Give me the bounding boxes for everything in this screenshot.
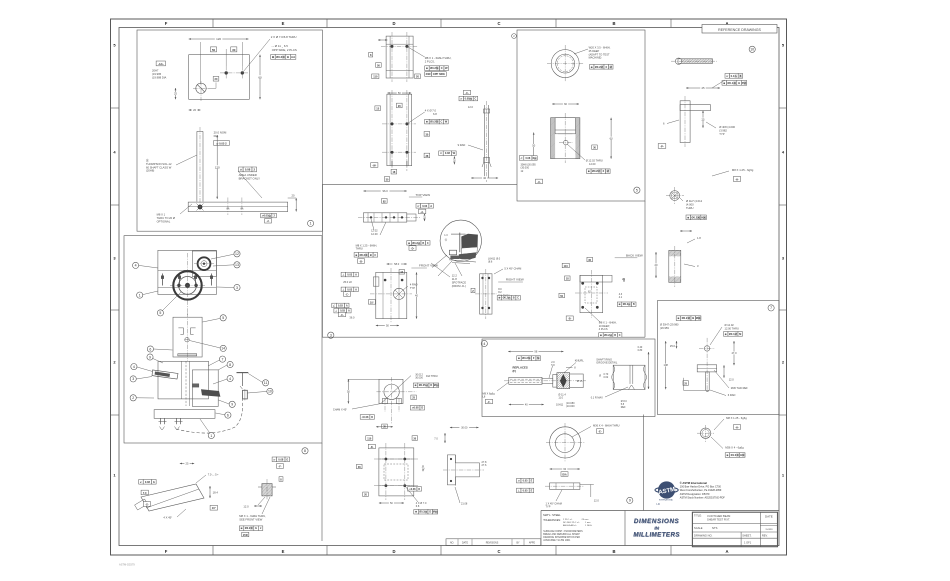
balloon 4b [131, 364, 153, 372]
svg-text:47.0: 47.0 [731, 351, 737, 355]
svg-text:25: 25 [702, 117, 705, 121]
washer cham [546, 490, 563, 509]
svg-text:0.03: 0.03 [338, 304, 343, 307]
svg-text:Ø 15: Ø 15 [577, 380, 583, 383]
svg-text:DIA: DIA [214, 134, 219, 138]
p3 front fcf col [332, 272, 376, 319]
svg-text:0.08Ⓜ: 0.08Ⓜ [465, 97, 473, 101]
svg-text:4: 4 [229, 377, 231, 381]
m36 nut note [711, 437, 744, 450]
svg-text:C: C [619, 334, 621, 337]
svg-text:DRAWING NO.: DRAWING NO. [694, 533, 713, 537]
svg-text:-X-: -X- [537, 181, 541, 184]
shaft groove detail label [596, 357, 618, 364]
notes box border [624, 511, 626, 546]
p3 top view body [358, 213, 421, 222]
wedge fcf3 [239, 526, 262, 537]
svg-text:1: 1 [210, 434, 212, 438]
svg-text:DIA: DIA [562, 473, 567, 476]
d-col rod notes [439, 143, 498, 180]
svg-text:-D-: -D- [370, 446, 374, 449]
svg-text:(10.000: (10.000 [566, 405, 575, 408]
svg-text:110: 110 [564, 265, 569, 268]
svg-text:Ø0.2Ⓜ: Ø0.2Ⓜ [592, 169, 601, 173]
flange cham [333, 379, 381, 411]
d-col rod [482, 101, 491, 182]
a-top pin [671, 58, 720, 64]
svg-text:58.0: 58.0 [394, 262, 400, 266]
svg-text:-B-: -B- [568, 318, 572, 321]
svg-text:V-NOTCHED BEAM: V-NOTCHED BEAM [707, 514, 730, 518]
footer microtext [119, 563, 135, 567]
svg-text:9 RAD: 9 RAD [458, 143, 466, 147]
fcf area under [238, 167, 262, 198]
d-col small bracket leader [407, 46, 452, 63]
balloon 11a [248, 374, 268, 386]
svg-text:B: B [422, 242, 424, 245]
svg-text:H: H [738, 81, 740, 85]
title block text [694, 514, 773, 545]
dim 120 [189, 37, 249, 41]
balloon 3b [130, 376, 152, 382]
svg-text:110: 110 [367, 437, 372, 440]
wedge datum G [143, 502, 150, 507]
svg-text:TYP: TYP [410, 286, 415, 290]
svg-text:11: 11 [264, 381, 268, 385]
svg-text:9: 9 [231, 403, 233, 407]
svg-text:1.8: 1.8 [697, 236, 701, 240]
balloon 14 [190, 341, 227, 352]
dim 120 vert [213, 135, 221, 199]
balloon 3a [217, 284, 240, 290]
wedge dim 25 [180, 461, 194, 465]
svg-text:Ø0.2Ⓜ: Ø0.2Ⓜ [682, 316, 691, 320]
part1 datum circle [193, 81, 208, 101]
svg-text:2: 2 [132, 396, 134, 400]
svg-text:-F-: -F- [278, 465, 281, 468]
p7 dim 12 [723, 365, 734, 381]
svg-text:1: 1 [139, 293, 141, 297]
fcf part1 holes [271, 55, 296, 60]
svg-text:C: C [374, 253, 376, 257]
svg-text:⌭0.08: ⌭0.08 [408, 488, 416, 491]
svg-text:B: B [287, 55, 289, 59]
svg-text:12.00 THRU: 12.00 THRU [725, 326, 739, 330]
svg-text:25Ø: 25Ø [243, 534, 248, 537]
dcolbot dim boxes [366, 436, 418, 449]
svg-text:Ø 12.02: Ø 12.02 [725, 323, 735, 327]
svg-text:96.0: 96.0 [382, 189, 388, 193]
title block grid [692, 512, 777, 547]
svg-text:F: F [165, 21, 168, 26]
svg-text:ASTM Designation: D5379: ASTM Designation: D5379 [680, 493, 710, 496]
m8 nut circle [697, 425, 714, 442]
svg-text:3: 3 [330, 333, 332, 337]
svg-text:SHEET,: SHEET, [742, 533, 751, 537]
svg-text:-B-: -B- [359, 260, 363, 263]
svg-text:(20H8): (20H8) [146, 169, 154, 173]
svg-text:4: 4 [133, 365, 135, 369]
svg-text:X: X [602, 169, 604, 173]
svg-text:Ø0.2Ⓜ: Ø0.2Ⓜ [430, 66, 439, 70]
a-mid stud part [663, 246, 692, 287]
svg-text:C: C [441, 120, 443, 124]
dcolbot leader [405, 486, 438, 514]
svg-text:18.4: 18.4 [213, 491, 219, 495]
svg-text:14: 14 [221, 347, 225, 351]
p5 id [634, 187, 640, 193]
p7 fcf top [676, 316, 701, 321]
svg-text:M36 THD REF: M36 THD REF [731, 386, 748, 390]
svg-text:0.08: 0.08 [245, 167, 251, 171]
svg-text:A: A [430, 204, 432, 208]
p7 dim 108 [662, 341, 669, 389]
a-top bar part [680, 96, 710, 147]
svg-text:Ø0.25Ⓜ: Ø0.25Ⓜ [419, 383, 429, 387]
svg-text:-H-: -H- [735, 177, 739, 181]
svg-text:⌭: ⌭ [725, 75, 728, 78]
svg-text:E: E [282, 21, 285, 26]
p3 cham note [494, 267, 521, 275]
svg-text:-H-: -H- [735, 425, 739, 429]
p5 cyl leader [567, 144, 610, 174]
svg-text:(19.988 DIA: (19.988 DIA [152, 75, 167, 79]
svg-text:60: 60 [258, 75, 262, 79]
svg-text:-C-: -C- [340, 314, 344, 317]
p5 ring view [547, 45, 584, 82]
svg-text:ASTM Stock Number: ADJD5379.E: ASTM Stock Number: ADJD5379.E-PDF [680, 496, 725, 499]
balloon 5b [203, 315, 227, 322]
svg-text:25.0: 25.0 [670, 344, 676, 348]
p3 rv hole note [497, 288, 520, 300]
svg-text:20H7: 20H7 [152, 69, 159, 73]
p3 bv thread note [585, 308, 622, 337]
svg-text:MⓂ: MⓂ [433, 510, 438, 514]
d-col big dims bot [371, 163, 397, 182]
svg-text:M36 X 4 - 6H6H THRU: M36 X 4 - 6H6H THRU [593, 424, 620, 428]
svg-text:KNURL: KNURL [575, 359, 585, 363]
svg-text:(ADAPT TO TEST: (ADAPT TO TEST [589, 52, 610, 56]
part1 plate outline [189, 42, 250, 99]
svg-text:D: D [418, 488, 420, 491]
a-mid 1.8 [680, 230, 701, 243]
knurl left note [483, 382, 510, 404]
knurl id [481, 340, 487, 346]
svg-text:7.0: 7.0 [434, 438, 438, 441]
svg-text:TOP VIEW: TOP VIEW [416, 193, 431, 197]
wedge 18.4 [209, 486, 218, 498]
d-col big leader [407, 109, 448, 124]
svg-text:⌭: ⌭ [439, 152, 442, 155]
washer side dim [550, 467, 580, 476]
svg-text:120: 120 [216, 37, 221, 41]
svg-text:(19.995: (19.995 [152, 72, 162, 76]
p3 topview fcf [416, 204, 433, 214]
groove detail section [612, 365, 647, 389]
svg-text:(8.6: (8.6 [488, 261, 493, 264]
svg-text:0.05: 0.05 [523, 489, 528, 492]
svg-text:Ⓜ: Ⓜ [607, 169, 610, 173]
svg-text:20Ø: 20Ø [426, 72, 431, 76]
svg-text:Ø1.0Ⓜ: Ø1.0Ⓜ [731, 453, 740, 457]
svg-text:INTERNATIONAL: INTERNATIONAL [659, 499, 673, 502]
svg-text:10°: 10° [212, 506, 216, 510]
svg-text:DIA THRU: DIA THRU [426, 375, 438, 378]
svg-text:M8 X 1: M8 X 1 [157, 213, 166, 217]
washer note [572, 424, 620, 438]
knurl 8dim [566, 367, 576, 370]
svg-text:10H11: 10H11 [556, 404, 564, 407]
svg-text:4 PLCS: 4 PLCS [599, 327, 608, 331]
svg-text:0.08: 0.08 [278, 457, 284, 461]
a-top datum P [658, 144, 666, 149]
svg-text:(4.000: (4.000 [686, 203, 694, 207]
svg-text:0.03: 0.03 [422, 204, 428, 208]
svg-text:Ø0.2Ⓜ: Ø0.2Ⓜ [419, 510, 427, 514]
svg-text:OPP SIDE, 2 PLCS: OPP SIDE, 2 PLCS [272, 48, 297, 52]
svg-text:30.00: 30.00 [461, 426, 468, 429]
balloon 13 [213, 262, 240, 268]
svg-text:REF: REF [621, 406, 626, 409]
svg-text:0.80: 0.80 [638, 349, 643, 352]
svg-text:D: D [430, 384, 432, 387]
svg-text:REV.: REV. [762, 533, 768, 537]
p3 thread note [354, 243, 378, 263]
dcol side dim [434, 426, 478, 443]
svg-text:⌭: ⌭ [517, 480, 520, 483]
svg-text:100 Barr Harbor Drive, PO Box: 100 Barr Harbor Drive, PO Box C700 [680, 486, 722, 489]
zone numbers [113, 43, 785, 478]
part1 hole 1 [220, 66, 248, 79]
svg-text:-C-: -C- [345, 293, 349, 296]
groove dims [591, 346, 650, 409]
svg-text:BREAK AND DEBURR ALL SHARP: BREAK AND DEBURR ALL SHARP [543, 533, 580, 536]
part2 m8 note [157, 204, 192, 223]
balloon 10b [248, 388, 274, 394]
svg-text:RIGHT VIEW: RIGHT VIEW [506, 278, 524, 282]
panel assembly border [124, 236, 322, 443]
svg-text:ASTM-D5379: ASTM-D5379 [119, 563, 135, 567]
dim 20 boxed [208, 76, 219, 88]
knurl dia15 [577, 380, 583, 383]
zone letters [165, 21, 729, 554]
svg-text:7.0 ⌴ 5 ▾: 7.0 ⌴ 5 ▾ [208, 473, 220, 477]
m8 nut note [714, 416, 747, 430]
svg-text:M8 X 1 - 6H6H THRU,: M8 X 1 - 6H6H THRU, [425, 56, 452, 60]
p3 front view label [387, 262, 438, 274]
svg-text:25.0 22: 25.0 22 [343, 280, 352, 284]
svg-text:-AA-: -AA- [158, 62, 164, 66]
balloon 2a [130, 395, 154, 401]
part2 rod [197, 127, 203, 206]
svg-text:1 OF1: 1 OF1 [744, 541, 752, 545]
svg-text:THRU TO 20 Ø: THRU TO 20 Ø [157, 216, 175, 220]
svg-text:0.62: 0.62 [604, 376, 609, 379]
svg-text:C: C [497, 21, 500, 26]
svg-text:12.00: 12.00 [371, 232, 378, 236]
dimensions-in-millimeters [633, 518, 680, 539]
svg-text:C: C [427, 242, 429, 245]
svg-text:(29.959: (29.959 [660, 326, 669, 330]
svg-text:Ø0.2Ⓜ: Ø0.2Ⓜ [623, 302, 631, 306]
svg-text:FRONT VIEW: FRONT VIEW [419, 264, 438, 268]
svg-text:7: 7 [770, 306, 772, 310]
svg-text:XⓂ: XⓂ [533, 156, 538, 160]
svg-text:6: 6 [149, 347, 151, 351]
svg-text:30: 30 [232, 48, 236, 52]
zone row ticks [111, 108, 787, 415]
dcolbot dims [357, 464, 426, 505]
part1 bore note [152, 69, 167, 80]
svg-text:M8 X 1.25 - 6g6g: M8 X 1.25 - 6g6g [726, 416, 747, 420]
svg-text:C: C [475, 98, 477, 101]
svg-text:G: G [286, 457, 288, 461]
svg-text:4 X Ø 7.0: 4 X Ø 7.0 [425, 109, 437, 113]
svg-text:2 PLC ±/-: 2 PLC ±/- [563, 519, 572, 521]
dim 30 boxed [231, 47, 237, 52]
svg-text:MAT'L: STEEL: MAT'L: STEEL [543, 513, 561, 517]
svg-text:0.03: 0.03 [347, 288, 352, 291]
svg-text:110: 110 [373, 75, 378, 79]
svg-text:6.8: 6.8 [416, 505, 420, 508]
dcolbot square plate [374, 443, 419, 500]
thompson note [146, 155, 197, 173]
part2 fcf opt [261, 213, 277, 223]
p3 front view body [370, 268, 412, 323]
washer side view [545, 483, 594, 497]
svg-text:25 DEEP: 25 DEEP [589, 49, 600, 53]
svg-text:REFERENCE DRAWINGS: REFERENCE DRAWINGS [718, 28, 761, 32]
m36 fcf [725, 453, 745, 458]
knurl dim 98 [508, 349, 563, 353]
p3 right view body [475, 269, 497, 319]
d-col big dims top [375, 91, 411, 111]
p7 m36 note [714, 370, 748, 390]
balloon 1a [137, 291, 158, 298]
svg-text:2 X Ø 7.0/6.8 THRU: 2 X Ø 7.0/6.8 THRU [271, 35, 297, 39]
part2 shaft note [214, 131, 230, 146]
svg-text:2 PLCS,: 2 PLCS, [425, 59, 435, 63]
washer id [627, 497, 633, 503]
assembly lower dashed [176, 399, 243, 433]
p3 topview dims [363, 189, 406, 203]
revisions strip [446, 539, 541, 546]
svg-text:B: B [370, 253, 372, 257]
svg-text:Ⓑ: Ⓑ [146, 159, 149, 163]
svg-text:© ASTM International: © ASTM International [680, 481, 707, 485]
p5 bore note [519, 156, 542, 184]
svg-text:6.8: 6.8 [433, 112, 437, 116]
panel 5 border [517, 30, 645, 201]
svg-text:⌭0.05Ⓜ: ⌭0.05Ⓜ [261, 215, 272, 218]
svg-text:-E-: -E- [598, 430, 602, 433]
svg-text:M: M [739, 332, 741, 336]
balloon 1b [200, 419, 214, 439]
svg-text:12.0: 12.0 [729, 377, 735, 381]
wedge fcf [139, 480, 156, 485]
d-col small dims [369, 52, 421, 78]
svg-text:9: 9 [149, 355, 151, 359]
svg-text:10: 10 [268, 390, 272, 394]
knurl step note [549, 361, 555, 378]
svg-text:THRU: THRU [686, 206, 694, 210]
datum AA label [156, 61, 165, 66]
dim 20 right [288, 194, 297, 212]
svg-text:Ø0.2Ⓜ: Ø0.2Ⓜ [503, 296, 511, 300]
svg-text:A: A [355, 288, 357, 291]
p3 back view label [615, 254, 643, 258]
svg-text:SHEAR TEST FIXT.: SHEAR TEST FIXT. [707, 517, 730, 521]
svg-text:AA: AA [291, 55, 295, 59]
wedge depth note [196, 473, 219, 484]
p3 spotface note [431, 263, 475, 293]
svg-text:50: 50 [212, 48, 216, 52]
svg-text:1: 1 [310, 222, 312, 226]
svg-text:⌭: ⌭ [459, 98, 462, 101]
svg-text:10: 10 [750, 48, 754, 52]
svg-text:West Conshohocken, Pa 19428-2: West Conshohocken, Pa 19428-2959 [680, 489, 722, 492]
svg-text:AA: AA [240, 207, 244, 210]
logo I-D [656, 502, 660, 506]
wedge screw [250, 479, 296, 500]
assembly upper body [158, 250, 217, 294]
p5 cylinder section [510, 113, 662, 163]
svg-text:-P-: -P- [660, 144, 664, 148]
svg-text:4: 4 [483, 342, 485, 346]
a-mid thread note [712, 168, 754, 181]
p3 topview leaders [371, 219, 386, 236]
svg-text:TITLE:: TITLE: [694, 514, 702, 518]
d-col small bracket [378, 32, 418, 82]
balloon 12 [211, 251, 240, 259]
wedge screw dim [243, 497, 265, 509]
svg-text:SCALE: SCALE [694, 526, 703, 530]
a-top id [749, 46, 755, 52]
svg-text:APPD: APPD [529, 542, 536, 545]
wedge thread note [239, 497, 270, 522]
svg-text:1 DEG.: 1 DEG. [585, 525, 593, 527]
svg-text:(3.982: (3.982 [719, 129, 727, 133]
svg-text:ANGULAR ±/-: ANGULAR ±/- [563, 524, 577, 527]
knurl pin [504, 373, 601, 389]
p7 dim 47 [730, 341, 738, 365]
svg-text:13: 13 [235, 263, 239, 267]
balloon 4a [133, 262, 159, 268]
p3 back view body [575, 270, 612, 318]
p5 corner mark [512, 34, 517, 39]
svg-text:.25 mm: .25 mm [581, 519, 588, 521]
washer dim12 [594, 499, 600, 503]
p3 right view label [498, 278, 524, 282]
svg-text:(FROM -D-): (FROM -D-) [452, 284, 466, 288]
svg-text:G: G [255, 526, 257, 530]
svg-text:-A-: -A- [420, 210, 424, 214]
svg-text:0.05: 0.05 [523, 480, 528, 483]
panel wedge divider [321, 443, 323, 541]
svg-text:E: E [282, 549, 285, 554]
svg-text:0.08: 0.08 [445, 151, 451, 155]
svg-text:120: 120 [215, 165, 220, 169]
balloon 4c [213, 375, 233, 384]
svg-text:5 X 45° CHAM: 5 X 45° CHAM [504, 267, 521, 271]
svg-text:-D-: -D- [411, 247, 415, 250]
flange boxes [360, 415, 393, 429]
d-col big bracket [382, 90, 416, 171]
svg-text:Ø 30H7 (29.980: Ø 30H7 (29.980 [660, 323, 679, 327]
svg-text:CHAM X 45°: CHAM X 45° [333, 409, 347, 412]
dcol side dims [455, 461, 487, 506]
svg-text:Ø0.2Ⓜ: Ø0.2Ⓜ [359, 253, 368, 257]
